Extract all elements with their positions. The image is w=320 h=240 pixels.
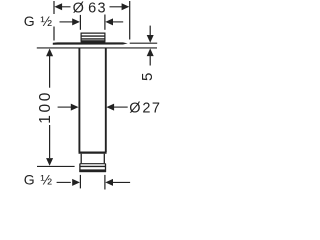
- dim G1/2 bottom tick left: [79, 175, 81, 189]
- dim Ø63 arrow right: [122, 3, 130, 10]
- dim Ø27 arrow left: [71, 104, 79, 111]
- svg-text:Ø: Ø: [129, 100, 140, 116]
- bottom thread lip top line: [80, 163, 106, 165]
- svg-text:5: 5: [139, 73, 156, 81]
- dim Ø63 arrow left: [54, 3, 62, 10]
- dim 5 upper extension line: [130, 42, 158, 44]
- dim G1/2 bottom arrow left: [72, 179, 80, 186]
- dim 100 line upper: [49, 56, 51, 88]
- dim Ø27 arrow right: [106, 104, 114, 111]
- pipe bottom edge: [79, 151, 107, 153]
- top thread line 1: [81, 35, 105, 37]
- bottom thread lip mid line: [80, 165, 106, 167]
- bottom thread neck left: [80, 154, 82, 164]
- dim Ø27 leader line right: [114, 106, 128, 108]
- bottom thread neck right: [103, 154, 105, 164]
- bottom thread lip base band: [79, 169, 106, 172]
- flange bottom line with extensions: [37, 47, 157, 49]
- dim Ø27 leader line left: [58, 106, 72, 108]
- dim G1/2 top dimension line right: [113, 21, 123, 23]
- dim G1/2 top arrow left: [72, 18, 80, 25]
- svg-text:27: 27: [142, 100, 161, 116]
- dim 100 arrow up: [46, 49, 53, 57]
- top thread line 2: [81, 38, 105, 40]
- dim Ø63 dimension line right segment: [110, 6, 124, 8]
- dim Ø63 extension line right: [129, 1, 131, 40]
- dim Ø63 dimension line left segment: [61, 6, 71, 8]
- dim 5 leader line bottom: [149, 56, 151, 66]
- dim G1/2 top dimension line left: [60, 21, 74, 23]
- svg-text:G: G: [24, 172, 35, 188]
- top thread collar outline: [81, 33, 105, 41]
- svg-text:63: 63: [88, 0, 107, 16]
- dim G1/2 bottom dimension line left: [57, 181, 71, 183]
- flange top edge: [53, 42, 128, 44]
- dim 100 line lower: [49, 125, 51, 158]
- svg-text:100: 100: [37, 90, 54, 124]
- dim G1/2 top tick left: [79, 15, 81, 30]
- dim G1/2 top arrow right: [105, 18, 113, 25]
- bottom thread lip left side: [79, 164, 81, 172]
- bottom thread lip right side: [105, 164, 107, 172]
- svg-text:G: G: [24, 13, 35, 29]
- dim 5 arrow up: [147, 48, 154, 56]
- dim 100 arrow down: [46, 158, 53, 166]
- svg-text:½: ½: [40, 172, 52, 188]
- dim 100 bottom extension line: [37, 165, 75, 167]
- pipe left wall: [78, 48, 80, 152]
- dim G1/2 bottom arrow right: [105, 179, 113, 186]
- pipe right wall: [105, 48, 107, 152]
- top thread base band: [81, 40, 106, 42]
- dim G1/2 top tick right: [104, 15, 106, 30]
- svg-text:½: ½: [40, 13, 52, 29]
- dim Ø63 extension line left: [53, 1, 55, 41]
- dim G1/2 bottom tick right: [104, 175, 106, 190]
- dim 5 leader line top: [149, 26, 151, 35]
- svg-text:Ø: Ø: [73, 0, 84, 16]
- dim G1/2 bottom dimension line right: [113, 181, 130, 183]
- dim 5 arrow down: [147, 35, 154, 43]
